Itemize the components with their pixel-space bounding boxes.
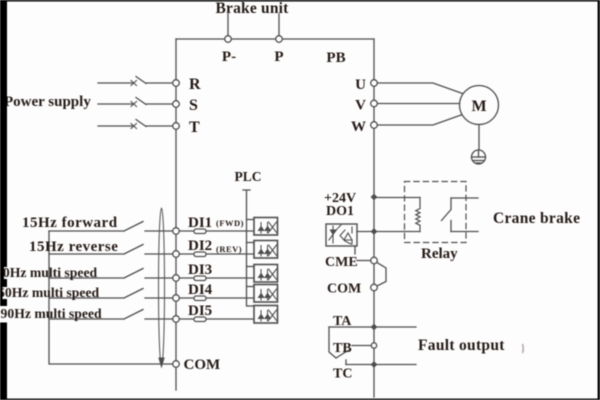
wire: S phase input <box>98 98 173 105</box>
wire: DI3 row <box>49 269 254 279</box>
svg-text:COM: COM <box>184 357 221 373</box>
wire: relay coil top feed <box>377 197 421 199</box>
junction TC <box>371 361 378 368</box>
svg-text:COM: COM <box>327 282 361 297</box>
svg-text:P: P <box>274 49 283 65</box>
svg-text:(REV): (REV) <box>216 244 242 254</box>
wire: crane brake top <box>451 197 478 199</box>
wire: W to motor <box>378 114 465 125</box>
breaker pole S <box>131 102 137 107</box>
wire: R phase input <box>98 77 173 84</box>
svg-text:M: M <box>471 98 486 115</box>
terminal R <box>173 80 180 87</box>
wire: TB lead <box>352 345 371 347</box>
terminal W <box>371 122 378 129</box>
breaker pole R <box>131 81 137 86</box>
wire: crane brake bottom <box>451 231 478 233</box>
resistor DI5 <box>194 317 206 322</box>
svg-text:V: V <box>355 98 366 114</box>
terminal P- <box>225 36 232 43</box>
svg-text:PLC: PLC <box>235 169 262 184</box>
wire: inverter right rail <box>373 39 375 397</box>
wire: PLC bus <box>243 190 254 306</box>
svg-text:Power supply: Power supply <box>4 94 91 110</box>
svg-text:DI4: DI4 <box>188 282 213 298</box>
wire: TC row <box>346 364 416 366</box>
junction +24V <box>371 194 378 201</box>
resistor DI3 <box>194 276 206 281</box>
svg-text:Relay: Relay <box>421 246 458 262</box>
svg-text:S: S <box>189 97 198 114</box>
optocoupler DI3 <box>254 265 278 283</box>
wire: opto to CME <box>354 246 356 254</box>
svg-text:(FWD): (FWD) <box>216 218 244 228</box>
wire: PLC stub DI3 <box>247 266 255 268</box>
optocoupler DI4 <box>254 285 278 303</box>
cable shield arrow <box>158 358 164 369</box>
wire: PLC stub DI4 <box>247 286 255 288</box>
svg-text:R: R <box>189 76 201 93</box>
relay contact TA-TB-TC <box>329 327 348 365</box>
wire: CME lead <box>357 260 371 262</box>
svg-text:DI1: DI1 <box>188 215 212 231</box>
svg-text:T: T <box>189 119 200 136</box>
relay coil K1 <box>416 198 420 232</box>
optocoupler DI5 <box>254 306 278 324</box>
svg-text:15Hz reverse: 15Hz reverse <box>29 239 118 255</box>
wire: CME-COM jumper <box>377 263 386 287</box>
relay contact K1 <box>442 198 452 232</box>
junction TA <box>371 324 378 331</box>
svg-text:90Hz multi speed: 90Hz multi speed <box>1 306 103 321</box>
svg-text:Fault output: Fault output <box>418 337 505 354</box>
terminal COM left <box>173 361 180 368</box>
wire: TA row <box>329 326 416 328</box>
svg-text:DI2: DI2 <box>188 238 212 254</box>
svg-text:U: U <box>355 77 366 93</box>
motor M <box>460 86 499 125</box>
svg-text:DI5: DI5 <box>188 303 212 319</box>
svg-text:TC: TC <box>333 367 352 382</box>
wire: T phase input <box>98 120 173 127</box>
terminal TB <box>371 343 376 348</box>
artifact tick <box>522 344 525 353</box>
wire: PLC stub DI1 <box>247 219 255 221</box>
breaker pole T <box>131 124 137 129</box>
optocoupler DI1 <box>254 218 278 236</box>
wire: digital input common bus <box>49 231 173 364</box>
wire: inverter left rail <box>175 39 177 390</box>
terminal DI1 <box>173 228 180 235</box>
wire: V to motor <box>378 103 460 105</box>
ground (protective earth) <box>472 150 486 164</box>
svg-text:PB: PB <box>326 50 345 66</box>
resistor DI1 <box>194 229 206 234</box>
terminal DI5 <box>173 316 180 323</box>
svg-text:DI3: DI3 <box>188 262 212 278</box>
terminal DI2 <box>173 251 180 258</box>
wire: DI2 row <box>49 245 254 255</box>
wire: PLC stub DI2 <box>247 242 255 244</box>
terminal P <box>276 36 283 43</box>
relay enclosure (dashed) <box>405 182 467 243</box>
resistor DI2 <box>194 252 206 257</box>
optocoupler DI2 <box>254 241 278 259</box>
terminal U <box>371 80 378 87</box>
wire: DI1 row <box>49 222 254 232</box>
cable shield ellipse <box>159 208 165 366</box>
terminal V <box>371 100 378 107</box>
terminal DI3 <box>173 275 180 282</box>
svg-text:W: W <box>351 119 366 135</box>
wire: relay coil bottom feed <box>377 231 421 233</box>
svg-text:TA: TA <box>333 314 352 329</box>
resistor DI4 <box>194 296 206 301</box>
svg-text:DO1: DO1 <box>326 204 354 219</box>
svg-text:60Hz multi speed: 60Hz multi speed <box>0 285 100 300</box>
svg-text:15Hz forward: 15Hz forward <box>22 215 118 231</box>
wire: U to motor <box>378 83 465 94</box>
junction DO1 <box>371 228 378 235</box>
terminal S <box>173 101 180 108</box>
wire: brake unit lead P- <box>227 14 229 36</box>
svg-text:30Hz multi speed: 30Hz multi speed <box>0 265 98 280</box>
wire: DI5 row <box>49 310 254 320</box>
terminal T <box>173 123 180 130</box>
wire: brake unit lead P <box>278 14 280 36</box>
wire: inverter top rail <box>176 38 374 40</box>
svg-text:Crane brake: Crane brake <box>493 210 580 227</box>
wire: DI4 row <box>49 289 254 299</box>
wire: DO1 opto to rail <box>357 231 374 233</box>
optocoupler DO1 <box>326 224 357 246</box>
wire: motor earth lead <box>478 125 480 151</box>
svg-text:Brake unit: Brake unit <box>215 0 289 17</box>
terminal CME <box>371 257 378 264</box>
terminal COM right <box>371 284 378 291</box>
svg-text:TB: TB <box>333 341 352 356</box>
svg-text:P-: P- <box>222 49 236 65</box>
svg-text:CME: CME <box>325 255 358 270</box>
terminal DI4 <box>173 295 180 302</box>
